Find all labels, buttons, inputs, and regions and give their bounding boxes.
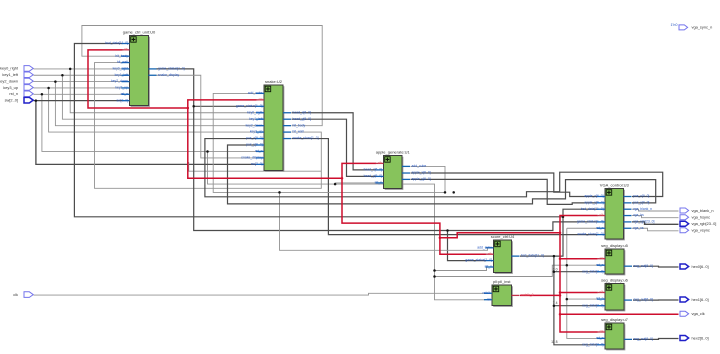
wire snake_display net: [157, 75, 257, 158]
svg-text:pos_y[9..0]: pos_y[9..0]: [633, 200, 649, 204]
junction game_status score: [446, 229, 449, 232]
svg-text:bcd_data[11..0]: bcd_data[11..0]: [521, 254, 544, 258]
output port vga_vsync: [680, 228, 710, 233]
svg-text:rst_n: rst_n: [596, 336, 604, 340]
svg-text:seg_display:u5: seg_display:u5: [601, 243, 628, 248]
svg-text:7 4: 7 4: [553, 301, 558, 305]
junction clk red at apple: [341, 177, 344, 180]
svg-text:head_x[6..0]: head_x[6..0]: [364, 168, 382, 172]
svg-text:add_cube: add_cube: [477, 245, 492, 249]
svg-text:seg_data[3..0]: seg_data[3..0]: [582, 269, 603, 273]
output port hex1[6..0]: [680, 297, 709, 302]
module seg_display:u5: [582, 243, 653, 275]
svg-text:refclk: refclk: [483, 291, 491, 295]
input port key3_up: [3, 85, 33, 91]
svg-text:clk: clk: [378, 161, 382, 165]
svg-text:rst_n: rst_n: [375, 181, 383, 185]
svg-text:rst_n: rst_n: [9, 91, 18, 96]
svg-text:score_ctrl:U4: score_ctrl:U4: [491, 234, 515, 239]
output port vga_hsync: [680, 215, 710, 220]
svg-text:seg_data[3..0]: seg_data[3..0]: [582, 342, 603, 346]
input port key0_right: [0, 66, 33, 72]
wire vga_rgb[23..0] net: [632, 222, 679, 224]
svg-text:game_status[1..0]: game_status[1..0]: [158, 67, 185, 71]
svg-text:clk: clk: [599, 290, 603, 294]
output port vga_clk: [680, 311, 705, 316]
svg-text:bcd_data[11..0]: bcd_data[11..0]: [105, 41, 128, 45]
module seg_display:u7: [582, 317, 653, 350]
junction add_cube: [278, 191, 281, 194]
svg-text:key1_left: key1_left: [2, 72, 18, 77]
junction rst_n at port fan: [41, 93, 44, 96]
svg-text:seg_data[3..0]: seg_data[3..0]: [582, 303, 603, 307]
svg-text:vga_hsync: vga_hsync: [692, 215, 711, 220]
wire segment below snake: [189, 162, 322, 171]
svg-text:add_cube: add_cube: [248, 91, 263, 95]
svg-text:rst_n: rst_n: [485, 265, 493, 269]
junction key0_right: [69, 68, 72, 71]
svg-text:vga_sync_n: vga_sync_n: [692, 25, 713, 30]
junction rst_n u6 branch: [566, 298, 569, 301]
wire apple_y bus: [411, 179, 598, 204]
svg-text:head_x[6..0]: head_x[6..0]: [293, 110, 311, 114]
junction bcd u5: [553, 270, 556, 273]
svg-text:apple_x[6..0]: apple_x[6..0]: [412, 171, 431, 175]
junction key2_down: [54, 80, 57, 83]
svg-text:sw[2..0]: sw[2..0]: [116, 98, 128, 102]
junction bcd u6: [553, 304, 556, 307]
junction key3_up: [47, 87, 50, 90]
svg-text:head_y[6..0]: head_y[6..0]: [364, 174, 382, 178]
wire sw[2..0] bus: [34, 100, 123, 102]
svg-text:sw[2..0]: sw[2..0]: [251, 162, 263, 166]
wire rst_n net: [34, 93, 123, 95]
svg-text:VGA_control:U3: VGA_control:U3: [600, 182, 630, 187]
svg-text:vga_vs: vga_vs: [633, 226, 644, 230]
junction clk red at snake: [187, 107, 190, 110]
svg-text:game_status[1..0]: game_status[1..0]: [465, 258, 492, 262]
junction rst_n u5 branch: [566, 264, 569, 267]
wire game_status bus: [157, 69, 598, 231]
svg-text:hit_body: hit_body: [293, 123, 306, 127]
svg-text:seg_display:u6: seg_display:u6: [601, 277, 628, 282]
svg-text:pos_y[9..0]: pos_y[9..0]: [246, 143, 262, 147]
wire bcd_data bus: [520, 255, 554, 257]
svg-text:clk: clk: [13, 292, 18, 297]
junction rst_n segs branch: [433, 275, 436, 278]
svg-text:key2_down: key2_down: [111, 79, 128, 83]
svg-text:snake_display: snake_display: [241, 156, 263, 160]
wire pos_y bus: [228, 145, 656, 204]
output port vga_blank_n: [680, 208, 714, 213]
input port rst_n: [9, 91, 33, 97]
module seg_display:u6: [582, 277, 653, 311]
junction rst_n at snake: [206, 150, 209, 153]
wire head_y bus: [292, 119, 377, 176]
svg-text:rst_n: rst_n: [255, 149, 263, 153]
svg-text:clk: clk: [124, 47, 128, 51]
svg-text:head_y[6..0]: head_y[6..0]: [293, 117, 311, 121]
svg-text:1'h0: 1'h0: [670, 23, 677, 27]
svg-text:rst: rst: [487, 297, 491, 301]
svg-text:key1_left: key1_left: [249, 117, 262, 121]
output port hex0[6..0]: [680, 264, 709, 269]
junction bcd at score out: [553, 255, 556, 258]
wire hex1 net: [633, 299, 679, 301]
svg-text:key3_up: key3_up: [3, 85, 18, 90]
svg-text:rst_n: rst_n: [596, 226, 604, 230]
svg-text:game_status[1..0]: game_status[1..0]: [236, 104, 263, 108]
svg-text:hit_wall: hit_wall: [293, 130, 304, 134]
svg-text:vga_clk: vga_clk: [692, 311, 705, 316]
svg-text:hit_wall: hit_wall: [117, 60, 128, 64]
svg-text:key0_right: key0_right: [0, 66, 19, 71]
svg-text:key3_up: key3_up: [250, 130, 263, 134]
svg-text:seg_out[6..0]: seg_out[6..0]: [634, 264, 653, 268]
wire key3_up net: [34, 87, 123, 89]
input port clk: [13, 292, 33, 298]
module VGA_control:U3: [577, 182, 655, 240]
svg-text:rst_n: rst_n: [596, 297, 604, 301]
svg-text:clk: clk: [599, 213, 603, 217]
svg-text:vga_rgb[23..0]: vga_rgb[23..0]: [692, 221, 717, 226]
svg-text:apple_generate:U1: apple_generate:U1: [376, 149, 411, 154]
svg-text:clk: clk: [599, 256, 603, 260]
svg-text:game_ctrl_unit:U0: game_ctrl_unit:U0: [123, 29, 156, 34]
svg-text:clk: clk: [599, 330, 603, 334]
svg-text:key3_up: key3_up: [115, 86, 128, 90]
wire add_cube net: [213, 93, 445, 192]
svg-text:apple_y[6..0]: apple_y[6..0]: [412, 177, 431, 181]
svg-text:outclk_0: outclk_0: [521, 293, 534, 297]
svg-text:seg_out[6..0]: seg_out[6..0]: [634, 337, 653, 341]
wire clk port to pll refclk: [34, 293, 485, 295]
svg-text:hex2[6..0]: hex2[6..0]: [692, 335, 709, 340]
output port hex2[6..0]: [680, 335, 709, 340]
svg-text:rst_n: rst_n: [121, 92, 129, 96]
svg-text:11 8: 11 8: [551, 340, 557, 344]
svg-text:vga_rgb[23..0]: vga_rgb[23..0]: [633, 220, 654, 224]
svg-text:apple_x[6..0]: apple_x[6..0]: [584, 194, 603, 198]
svg-text:vga_hs: vga_hs: [633, 213, 644, 217]
wire vga_hsync net: [632, 216, 679, 218]
module apple_generate:U1: [364, 149, 431, 189]
wire apple_x bus: [411, 173, 598, 196]
wire hex2 net: [633, 338, 679, 341]
input port sw[2..0]: [5, 97, 34, 103]
svg-text:seg_out[6..0]: seg_out[6..0]: [634, 298, 653, 302]
output port vga_rgb[23..0]: [680, 221, 716, 226]
wire key2_down net: [34, 81, 123, 83]
wire key0_right net: [34, 68, 123, 70]
output port vga_sync_n: [679, 25, 712, 30]
input port key2_down: [0, 78, 33, 84]
wire head_x bus: [292, 113, 377, 170]
junction clk red vga_clk: [559, 313, 562, 316]
junction bcd loop: [562, 216, 565, 219]
junction clk red pll: [559, 294, 562, 297]
svg-text:snake_display: snake_display: [158, 73, 180, 77]
svg-text:key0_right: key0_right: [113, 67, 128, 71]
junction clk red at score: [439, 236, 442, 239]
module pll:pll_inst: [483, 279, 534, 307]
junction key1_left: [61, 74, 64, 77]
svg-text:clk: clk: [488, 252, 492, 256]
junction sw bus: [35, 99, 38, 102]
junction game_status snake: [192, 105, 195, 108]
svg-text:rst_n: rst_n: [596, 263, 604, 267]
module score_ctrl:U4: [465, 234, 543, 274]
svg-text:pll:pll_inst: pll:pll_inst: [493, 279, 511, 284]
svg-text:vga_vsync: vga_vsync: [692, 228, 710, 233]
wire hex0 net: [633, 265, 679, 268]
wire pos_x bus: [205, 139, 663, 197]
svg-text:hex0[6..0]: hex0[6..0]: [692, 264, 709, 269]
svg-text:vga_blank_n: vga_blank_n: [633, 207, 652, 211]
svg-text:game_status[1..0]: game_status[1..0]: [577, 220, 604, 224]
svg-text:clk: clk: [258, 97, 262, 101]
module snake:U2: [236, 79, 319, 172]
wire vga_vsync net: [632, 228, 679, 231]
module game_ctrl_unit:U0: [105, 29, 184, 106]
svg-text:vga_blank_n: vga_blank_n: [692, 208, 714, 213]
svg-text:key1_left: key1_left: [115, 73, 128, 77]
svg-text:add_cube: add_cube: [412, 164, 427, 168]
svg-text:snake:U2: snake:U2: [265, 79, 283, 84]
svg-text:3 0: 3 0: [553, 267, 558, 271]
svg-text:pos_x[9..0]: pos_x[9..0]: [633, 194, 649, 198]
svg-text:key2_down: key2_down: [246, 123, 263, 127]
svg-text:sw[2..0]: sw[2..0]: [5, 97, 18, 102]
svg-text:key2_down: key2_down: [0, 78, 18, 83]
input port key1_left: [2, 72, 33, 78]
wire hit_body net: [82, 26, 322, 126]
junction clk red u6: [559, 291, 562, 294]
svg-text:hit_body: hit_body: [115, 54, 128, 58]
junction clk red at vga: [559, 231, 562, 234]
junction rst_n score branch: [433, 269, 436, 272]
svg-text:apple_y[6..0]: apple_y[6..0]: [584, 200, 603, 204]
wire hit_wall net: [95, 63, 322, 189]
svg-text:seg_display:u7: seg_display:u7: [601, 317, 628, 322]
svg-text:snake_show[1..0]: snake_show[1..0]: [577, 232, 603, 236]
junction clk red u5: [559, 257, 562, 260]
wire snake_show bus: [292, 139, 598, 235]
wire key1_left net: [34, 74, 123, 76]
svg-text:key0_right: key0_right: [247, 110, 262, 114]
svg-text:hex1[6..0]: hex1[6..0]: [692, 297, 709, 302]
svg-text:snake_show[1..0]: snake_show[1..0]: [293, 136, 319, 140]
wire clk (25MHz) red net: [88, 50, 440, 238]
svg-text:bcd_data[11..0]: bcd_data[11..0]: [581, 207, 604, 211]
junction rst_n apple branch: [334, 183, 337, 186]
svg-text:pos_x[9..0]: pos_x[9..0]: [246, 136, 262, 140]
wire vga_blank_n net: [632, 209, 679, 211]
